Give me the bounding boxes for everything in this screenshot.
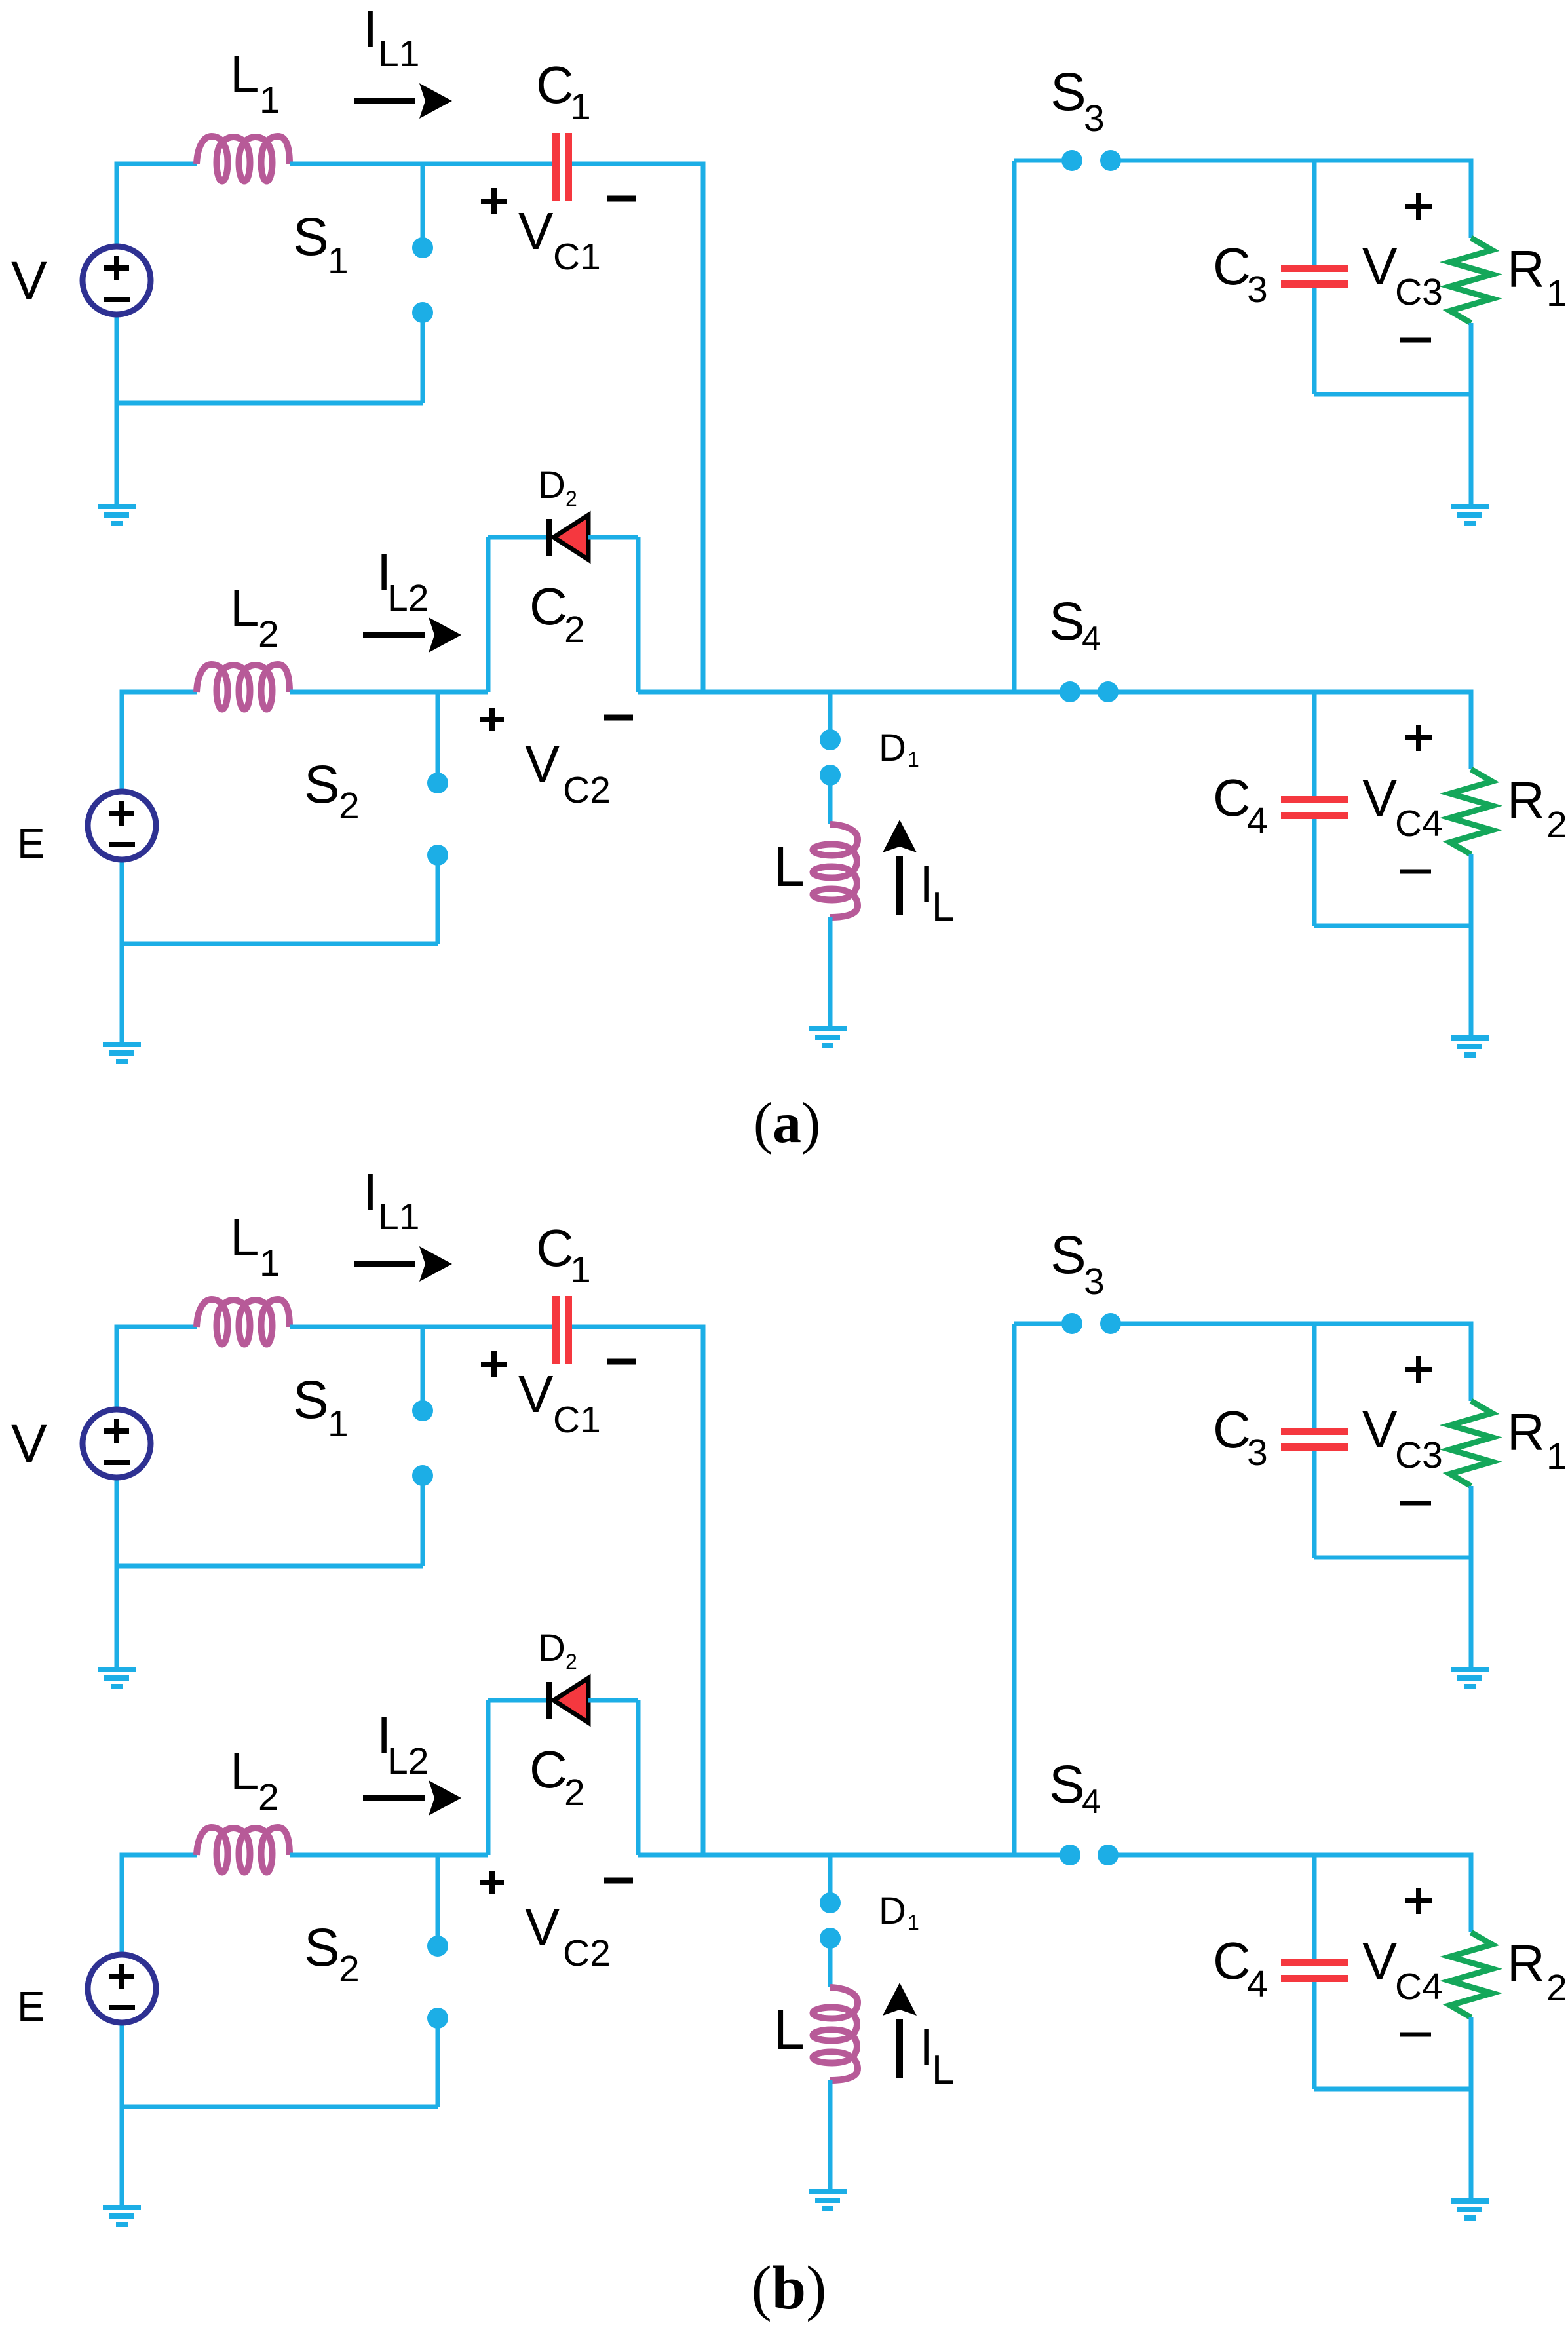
capacitor C4 (a) bbox=[1281, 796, 1348, 819]
svg-text:L2: L2 bbox=[387, 577, 429, 619]
wire D1 lower stem (b) bbox=[828, 1938, 833, 1987]
wire L1 to C1 (a) bbox=[290, 162, 552, 166]
label V_C3 (b) bbox=[1362, 1400, 1443, 1476]
svg-text:C: C bbox=[1213, 769, 1251, 827]
wire R1 to ground (b) bbox=[1469, 1486, 1474, 1668]
svg-text:3: 3 bbox=[1247, 1432, 1268, 1474]
svg-text:1: 1 bbox=[1546, 1436, 1567, 1478]
wire S2 lower stem (a) bbox=[436, 855, 440, 944]
label R1 (a) bbox=[1507, 240, 1567, 315]
wire L to ground (b) bbox=[828, 2080, 833, 2190]
label S1 (b) bbox=[293, 1370, 349, 1445]
label V_C1 (a) bbox=[518, 202, 601, 278]
wire E loop bottom (b) bbox=[122, 2105, 438, 2109]
polarity + of VC3 (b) bbox=[1405, 1356, 1432, 1383]
wire C1 to right corner down (a) bbox=[572, 164, 703, 692]
label R1 (b) bbox=[1507, 1403, 1567, 1478]
svg-text:C3: C3 bbox=[1395, 1434, 1443, 1476]
resistor R2 (a) bbox=[1450, 769, 1492, 854]
capacitor C3 (b) bbox=[1281, 1428, 1348, 1451]
svg-text:I: I bbox=[363, 1163, 377, 1221]
svg-text:L: L bbox=[932, 2048, 954, 2093]
label V_C1 (b) bbox=[518, 1365, 601, 1441]
svg-text:C4: C4 bbox=[1395, 1966, 1443, 2008]
switch S2 contact dots (b) bbox=[427, 1936, 448, 2029]
label R2 (a) bbox=[1507, 771, 1567, 846]
polarity - of VC3 (b) bbox=[1400, 1501, 1431, 1506]
wire V bottom lead (b) bbox=[115, 1478, 119, 1668]
svg-text:3: 3 bbox=[1084, 1261, 1105, 1303]
svg-text:V: V bbox=[11, 1414, 47, 1474]
svg-text:L1: L1 bbox=[378, 33, 419, 75]
label S3 (b) bbox=[1050, 1225, 1105, 1303]
label C2 (a) bbox=[529, 577, 585, 651]
capacitor C1 (b) bbox=[552, 1296, 572, 1364]
svg-text:2: 2 bbox=[565, 487, 577, 510]
wire E top lead to L2 (b) bbox=[122, 1855, 197, 1955]
svg-text:2: 2 bbox=[1546, 804, 1567, 846]
label L2 (a) bbox=[230, 579, 279, 655]
inductor L1 (b) bbox=[197, 1299, 290, 1345]
ground under E (a) bbox=[103, 1042, 141, 1064]
svg-text:L: L bbox=[773, 1998, 805, 2061]
svg-text:1: 1 bbox=[259, 1242, 280, 1284]
switch S3 contact dots (a) bbox=[1061, 150, 1121, 171]
wire capacitor C2 right plate (a) bbox=[636, 537, 641, 692]
current arrow IL2 (b) bbox=[363, 1780, 461, 1816]
wire S4 right segment (b) bbox=[1108, 1855, 1471, 1932]
label C3 (a) bbox=[1213, 237, 1268, 311]
polarity + of VC1 (a) bbox=[481, 188, 507, 214]
svg-text:1: 1 bbox=[328, 240, 349, 282]
label S4 (a) bbox=[1049, 592, 1101, 658]
svg-text:V: V bbox=[1362, 1400, 1398, 1459]
wire capacitor C2 left plate (b) bbox=[486, 1700, 491, 1855]
svg-text:C2: C2 bbox=[563, 769, 611, 811]
wire S1 upper stem (a) bbox=[421, 164, 425, 248]
ground under R2 (b) bbox=[1451, 2198, 1489, 2221]
wire S2 upper stem (b) bbox=[436, 1855, 440, 1946]
label E (b) bbox=[17, 1983, 45, 2030]
wire S3-S4 connector (a) bbox=[1012, 161, 1017, 692]
svg-text:V: V bbox=[518, 1365, 554, 1423]
label V_C4 (b) bbox=[1362, 1932, 1443, 2008]
current arrow IL (b) bbox=[883, 1983, 917, 2078]
caption (b) bbox=[752, 2254, 827, 2322]
wire S1 lower stem (a) bbox=[421, 313, 425, 403]
svg-text:V: V bbox=[525, 1898, 560, 1956]
label IL2 (b) bbox=[377, 1706, 429, 1782]
wire R1 to ground (a) bbox=[1469, 323, 1474, 505]
switch S1 contact dots (b) bbox=[412, 1400, 433, 1486]
svg-text:S: S bbox=[293, 207, 329, 267]
wire D1 upper stem (a) bbox=[828, 692, 833, 740]
svg-text:2: 2 bbox=[339, 1948, 360, 1990]
label V_C2 (b) bbox=[525, 1898, 611, 1974]
svg-text:D: D bbox=[879, 727, 906, 769]
inductor L2 (a) bbox=[197, 664, 290, 710]
svg-text:2: 2 bbox=[258, 1776, 279, 1818]
svg-text:S: S bbox=[1050, 62, 1086, 122]
label C2 (b) bbox=[529, 1740, 585, 1814]
label L (b) bbox=[773, 1998, 805, 2061]
svg-text:C: C bbox=[536, 1219, 574, 1277]
svg-text:D: D bbox=[879, 1890, 906, 1932]
svg-text:V: V bbox=[518, 202, 554, 260]
switch S4 contact dots (a) bbox=[1060, 681, 1119, 702]
svg-text:E: E bbox=[17, 820, 45, 867]
svg-text:S: S bbox=[1049, 1755, 1085, 1814]
label R2 (b) bbox=[1507, 1934, 1567, 2009]
polarity + of VC3 (a) bbox=[1405, 193, 1432, 220]
polarity + of VC4 (a) bbox=[1405, 725, 1432, 751]
label V_C2 (a) bbox=[525, 735, 611, 811]
diode D2 (a) bbox=[546, 515, 588, 560]
wire S3 left segment (b) bbox=[1014, 1322, 1072, 1326]
voltage source V (b) bbox=[83, 1409, 151, 1478]
polarity - of VC2 (b) bbox=[604, 1878, 633, 1884]
wire L1 to C1 (b) bbox=[290, 1325, 552, 1329]
svg-text:C2: C2 bbox=[563, 1932, 611, 1974]
current arrow IL1 (a) bbox=[354, 83, 452, 119]
label L (a) bbox=[773, 835, 805, 898]
polarity - of VC4 (b) bbox=[1400, 2033, 1431, 2037]
label D1 (b) bbox=[879, 1890, 919, 1934]
wire S1 upper stem (b) bbox=[421, 1327, 425, 1411]
svg-text:S: S bbox=[293, 1370, 329, 1430]
wire V loop bottom (a) bbox=[117, 401, 423, 406]
polarity - of VC1 (a) bbox=[607, 196, 636, 202]
resistor R1 (a) bbox=[1450, 238, 1492, 323]
current arrow IL1 (b) bbox=[354, 1246, 452, 1282]
wire C3 lower stem (b) bbox=[1312, 1451, 1317, 1558]
label C4 (a) bbox=[1213, 769, 1268, 842]
label D2 (a) bbox=[538, 464, 577, 510]
wire C2 loop top left (a) bbox=[488, 535, 546, 540]
label C1 (b) bbox=[536, 1219, 591, 1291]
wire L to ground (a) bbox=[828, 917, 833, 1027]
svg-text:C: C bbox=[529, 1740, 567, 1799]
switch S4 contact dots (b) bbox=[1060, 1845, 1119, 1865]
svg-text:C: C bbox=[529, 577, 567, 636]
label V (a) bbox=[11, 251, 47, 311]
svg-text:3: 3 bbox=[1247, 269, 1268, 311]
wire S3 right segment (a) bbox=[1111, 161, 1471, 238]
label D2 (b) bbox=[538, 1627, 577, 1673]
svg-text:R: R bbox=[1507, 1934, 1545, 1993]
label L2 (b) bbox=[230, 1742, 279, 1818]
resistor R2 (b) bbox=[1450, 1932, 1492, 2017]
svg-text:1: 1 bbox=[570, 86, 591, 128]
wire middle bus (a) bbox=[638, 690, 1070, 695]
svg-text:2: 2 bbox=[564, 609, 585, 651]
svg-text:L: L bbox=[230, 45, 259, 104]
diode switch D1 contact dots (b) bbox=[820, 1892, 841, 1949]
svg-text:4: 4 bbox=[1247, 1963, 1268, 2005]
polarity + of VC2 (b) bbox=[480, 1871, 504, 1894]
svg-text:C: C bbox=[1213, 1400, 1251, 1459]
switch S1 contact dots (a) bbox=[412, 237, 433, 323]
svg-text:1: 1 bbox=[908, 748, 919, 771]
polarity - of VC2 (a) bbox=[604, 715, 633, 721]
label E (a) bbox=[17, 820, 45, 867]
label C1 (a) bbox=[536, 56, 591, 128]
svg-text:V: V bbox=[11, 251, 47, 311]
wire D1 upper stem (b) bbox=[828, 1855, 833, 1903]
caption (a) bbox=[754, 1092, 821, 1155]
svg-text:1: 1 bbox=[570, 1249, 591, 1291]
wire V bottom lead (a) bbox=[115, 315, 119, 505]
label D1 (a) bbox=[879, 727, 919, 771]
polarity - of VC4 (a) bbox=[1400, 870, 1431, 874]
current arrow IL2 (a) bbox=[363, 617, 461, 653]
svg-text:I: I bbox=[363, 0, 377, 58]
ground under R1 (b) bbox=[1451, 1667, 1489, 1689]
label S2 (b) bbox=[304, 1918, 360, 1990]
svg-text:2: 2 bbox=[258, 613, 279, 655]
svg-text:V: V bbox=[525, 735, 560, 793]
wire capacitor C2 left plate (a) bbox=[486, 537, 491, 692]
svg-text:L: L bbox=[773, 835, 805, 898]
wire S3 left segment (a) bbox=[1014, 159, 1072, 163]
wire C4 lower stem (b) bbox=[1312, 1982, 1317, 2089]
wire middle bus (b) bbox=[638, 1853, 1070, 1858]
label L1 (b) bbox=[230, 1208, 280, 1284]
label L1 (a) bbox=[230, 45, 280, 121]
voltage source E (a) bbox=[88, 792, 156, 860]
wire load1 bottom (b) bbox=[1314, 1556, 1471, 1560]
svg-text:S: S bbox=[304, 755, 340, 814]
voltage source E (b) bbox=[88, 1955, 156, 2023]
wire V top lead to L1 (a) bbox=[117, 164, 197, 248]
wire C3 upper stem (a) bbox=[1312, 161, 1317, 265]
label IL1 (b) bbox=[363, 1163, 419, 1238]
svg-text:C3: C3 bbox=[1395, 271, 1443, 313]
wire load2 bottom (b) bbox=[1314, 2087, 1471, 2092]
wire V loop bottom (b) bbox=[117, 1564, 423, 1569]
wire E bottom lead (a) bbox=[120, 860, 124, 1043]
polarity + of VC2 (a) bbox=[480, 708, 504, 731]
polarity - of VC3 (a) bbox=[1400, 338, 1431, 343]
wire C2 loop top right (a) bbox=[588, 535, 638, 540]
capacitor C3 (a) bbox=[1281, 265, 1348, 288]
wire E bottom lead (b) bbox=[120, 2023, 124, 2206]
wire C4 upper stem (b) bbox=[1312, 1855, 1317, 1959]
svg-text:R: R bbox=[1507, 240, 1545, 298]
wire S3 right segment (b) bbox=[1111, 1324, 1471, 1401]
svg-text:C: C bbox=[536, 56, 574, 114]
wire C3 lower stem (a) bbox=[1312, 288, 1317, 394]
svg-text:L: L bbox=[932, 885, 954, 930]
capacitor C4 (b) bbox=[1281, 1959, 1348, 1982]
label C4 (b) bbox=[1213, 1932, 1268, 2005]
wire load2 bottom (a) bbox=[1314, 924, 1471, 928]
svg-text:V: V bbox=[1362, 769, 1398, 827]
switch S2 contact dots (a) bbox=[427, 773, 448, 866]
svg-text:1: 1 bbox=[908, 1911, 919, 1934]
svg-text:C: C bbox=[1213, 1932, 1251, 1990]
svg-text:E: E bbox=[17, 1983, 45, 2030]
wire load1 bottom (a) bbox=[1314, 392, 1471, 397]
svg-text:1: 1 bbox=[328, 1403, 349, 1445]
svg-text:D: D bbox=[538, 1627, 565, 1670]
svg-text:(b): (b) bbox=[752, 2254, 827, 2322]
wire S4 closed link (a) bbox=[1070, 690, 1108, 695]
ground under L (b) bbox=[809, 2189, 847, 2211]
svg-text:V: V bbox=[1362, 1932, 1398, 1990]
wire S2 upper stem (a) bbox=[436, 692, 440, 783]
svg-text:V: V bbox=[1362, 237, 1398, 296]
wire C1 to right corner down (b) bbox=[572, 1327, 703, 1855]
wire R2 to ground (b) bbox=[1469, 2017, 1474, 2200]
label V_C3 (a) bbox=[1362, 237, 1443, 313]
svg-text:S: S bbox=[1050, 1225, 1086, 1285]
svg-text:R: R bbox=[1507, 771, 1545, 830]
svg-text:C4: C4 bbox=[1395, 803, 1443, 845]
wire L2 to C2 (b) bbox=[290, 1853, 488, 1858]
svg-text:4: 4 bbox=[1082, 1783, 1101, 1821]
label S3 (a) bbox=[1050, 62, 1105, 140]
diode D2 (b) bbox=[546, 1678, 588, 1723]
wire capacitor C2 right plate (b) bbox=[636, 1700, 641, 1855]
wire E top lead to L2 (a) bbox=[122, 692, 197, 792]
wire S3-S4 connector (b) bbox=[1012, 1324, 1017, 1855]
polarity + of VC4 (b) bbox=[1405, 1888, 1432, 1914]
svg-text:C1: C1 bbox=[553, 1399, 601, 1441]
inductor L (a) bbox=[813, 824, 858, 917]
diode switch D1 contact dots (a) bbox=[820, 729, 841, 786]
svg-text:L: L bbox=[230, 1208, 259, 1267]
label IL1 (a) bbox=[363, 0, 419, 75]
ground under R1 (a) bbox=[1451, 504, 1489, 526]
svg-text:(a): (a) bbox=[754, 1092, 821, 1155]
svg-text:C1: C1 bbox=[553, 236, 601, 278]
polarity + of VC1 (b) bbox=[481, 1351, 507, 1377]
svg-text:2: 2 bbox=[565, 1650, 577, 1673]
capacitor C1 (a) bbox=[552, 133, 572, 201]
switch S3 contact dots (b) bbox=[1061, 1313, 1121, 1334]
svg-text:2: 2 bbox=[1546, 1967, 1567, 2009]
wire C2 loop top left (b) bbox=[488, 1698, 546, 1703]
ground under R2 (a) bbox=[1451, 1035, 1489, 1058]
ground under L (a) bbox=[809, 1026, 847, 1048]
label S1 (a) bbox=[293, 207, 349, 282]
ground under V (a) bbox=[98, 504, 136, 526]
svg-text:L2: L2 bbox=[387, 1740, 429, 1782]
current arrow IL (a) bbox=[883, 820, 917, 915]
svg-text:1: 1 bbox=[1546, 273, 1567, 315]
svg-text:L: L bbox=[230, 1742, 259, 1801]
wire S2 lower stem (b) bbox=[436, 2018, 440, 2107]
label C3 (b) bbox=[1213, 1400, 1268, 1474]
wire S1 lower stem (b) bbox=[421, 1476, 425, 1566]
svg-text:S: S bbox=[1049, 592, 1085, 651]
svg-text:4: 4 bbox=[1247, 800, 1268, 842]
svg-text:D: D bbox=[538, 464, 565, 507]
wire R2 to ground (a) bbox=[1469, 854, 1474, 1037]
label IL (a) bbox=[919, 854, 954, 930]
wire L2 to C2 (a) bbox=[290, 690, 488, 695]
inductor L1 (a) bbox=[197, 136, 290, 182]
wire S4 right segment (a) bbox=[1108, 692, 1471, 769]
svg-text:4: 4 bbox=[1082, 620, 1101, 658]
label IL (b) bbox=[919, 2017, 954, 2093]
polarity - of VC1 (b) bbox=[607, 1359, 636, 1365]
svg-text:L1: L1 bbox=[378, 1196, 419, 1238]
label IL2 (a) bbox=[377, 543, 429, 619]
inductor L (b) bbox=[813, 1987, 858, 2080]
svg-text:2: 2 bbox=[564, 1772, 585, 1814]
label V_C4 (a) bbox=[1362, 769, 1443, 845]
wire E loop bottom (a) bbox=[122, 942, 438, 946]
voltage source V (a) bbox=[83, 246, 151, 315]
wire C2 loop top right (b) bbox=[588, 1698, 638, 1703]
inductor L2 (b) bbox=[197, 1827, 290, 1873]
wire C3 upper stem (b) bbox=[1312, 1324, 1317, 1428]
wire C4 lower stem (a) bbox=[1312, 819, 1317, 926]
resistor R1 (b) bbox=[1450, 1401, 1492, 1486]
svg-text:1: 1 bbox=[259, 79, 280, 121]
wire V top lead to L1 (b) bbox=[117, 1327, 197, 1411]
svg-text:S: S bbox=[304, 1918, 340, 1978]
svg-text:C: C bbox=[1213, 237, 1251, 296]
wire C4 upper stem (a) bbox=[1312, 692, 1317, 796]
ground under E (b) bbox=[103, 2205, 141, 2227]
label S4 (b) bbox=[1049, 1755, 1101, 1821]
svg-text:3: 3 bbox=[1084, 98, 1105, 140]
wire D1 lower stem (a) bbox=[828, 775, 833, 824]
svg-text:2: 2 bbox=[339, 785, 360, 827]
label S2 (a) bbox=[304, 755, 360, 827]
label V (b) bbox=[11, 1414, 47, 1474]
svg-text:R: R bbox=[1507, 1403, 1545, 1461]
ground under V (b) bbox=[98, 1667, 136, 1689]
svg-text:L: L bbox=[230, 579, 259, 638]
